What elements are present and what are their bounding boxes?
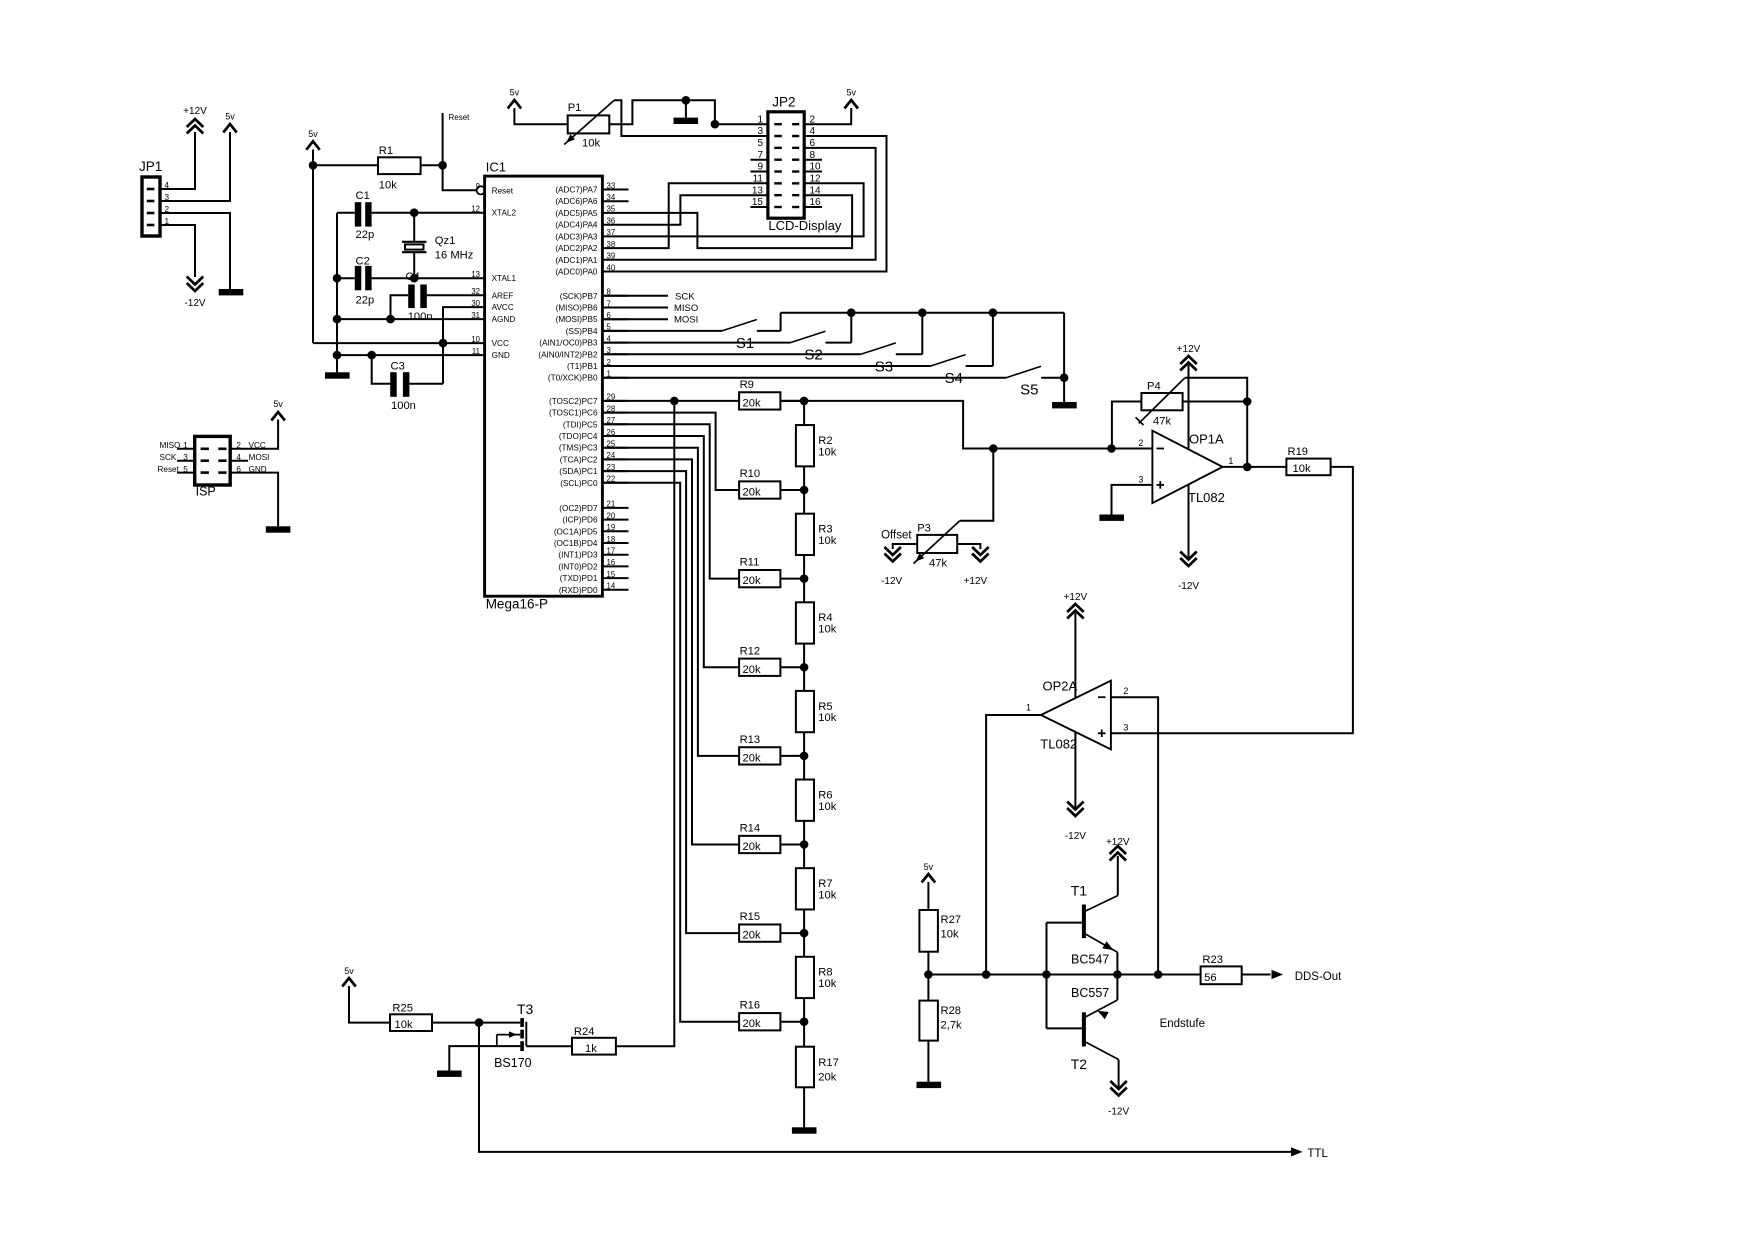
wire P4 right to output xyxy=(1183,401,1248,403)
op-amp U2B OP2A TL082 xyxy=(1026,679,1128,752)
power +12V OP1A xyxy=(1177,344,1201,371)
wire T1 emitter to node xyxy=(1116,952,1118,974)
junction ladder row R10 xyxy=(800,486,809,495)
wire PC1 to R15 xyxy=(602,471,739,933)
resistor R25 10k xyxy=(390,1003,432,1032)
wire rail down to ground xyxy=(1063,313,1065,402)
JP2 pin15 stub xyxy=(751,206,768,208)
svg-text:20k: 20k xyxy=(743,664,761,676)
power -12V T2 xyxy=(1108,1081,1129,1118)
crystal Qz1 xyxy=(402,213,474,279)
junction ladder row R9 xyxy=(800,397,809,406)
junction GND/C3 xyxy=(367,351,376,360)
ground switches xyxy=(1052,402,1077,408)
junction GND/gnd bus xyxy=(333,351,342,360)
svg-text:R5: R5 xyxy=(818,701,832,713)
svg-text:Reset: Reset xyxy=(449,113,471,122)
svg-text:35: 35 xyxy=(607,205,616,214)
svg-text:(TXD)PD1: (TXD)PD1 xyxy=(560,574,598,583)
junction ladder row R12 xyxy=(800,663,809,672)
resistor R13 20k xyxy=(739,734,780,765)
svg-text:14: 14 xyxy=(607,582,616,591)
svg-text:T3: T3 xyxy=(517,1001,534,1017)
wire T2 collector to -12V xyxy=(1118,1060,1120,1088)
svg-text:15: 15 xyxy=(607,570,616,579)
svg-text:(AIN0/INT2)PB2: (AIN0/INT2)PB2 xyxy=(538,350,598,359)
pin 4 MOSI stub xyxy=(230,453,269,462)
svg-text:-12V: -12V xyxy=(184,298,205,309)
wire R9 to ladder xyxy=(780,400,804,402)
svg-text:100n: 100n xyxy=(391,400,416,412)
svg-text:C4: C4 xyxy=(406,271,420,283)
svg-text:(OC2)PD7: (OC2)PD7 xyxy=(559,504,598,513)
svg-text:(AIN1/OC0)PB3: (AIN1/OC0)PB3 xyxy=(539,339,598,348)
wire ladder out to op-amp xyxy=(780,401,1152,449)
svg-text:R14: R14 xyxy=(740,823,761,835)
svg-text:JP1: JP1 xyxy=(139,159,162,174)
svg-text:(OC1B)PD4: (OC1B)PD4 xyxy=(554,539,598,548)
junction T3 drain node xyxy=(475,1018,484,1027)
wire JP2 pin11 to PA2 xyxy=(629,183,768,248)
junction feedback xyxy=(1154,970,1163,979)
wire PB4 to S1 xyxy=(602,330,722,332)
svg-text:20k: 20k xyxy=(743,841,761,853)
svg-text:Endstufe: Endstufe xyxy=(1160,1018,1205,1030)
wire R17 to ground xyxy=(803,1087,805,1127)
junction XTAL2/crystal xyxy=(410,208,419,217)
svg-text:(TCA)PC2: (TCA)PC2 xyxy=(560,455,598,464)
wire ladder segment below R3 xyxy=(803,555,805,579)
junction rail S2 xyxy=(847,308,856,317)
svg-text:(T0/XCK)PB0: (T0/XCK)PB0 xyxy=(548,374,598,383)
wire PC4 to R12 xyxy=(602,436,739,667)
svg-text:20k: 20k xyxy=(743,487,761,499)
svg-text:10k: 10k xyxy=(818,535,836,547)
wire JP1 pin4 to +12V xyxy=(160,132,195,189)
JP2 pin16 stub xyxy=(804,206,822,208)
svg-text:34: 34 xyxy=(607,193,616,202)
svg-text:(ICP)PD6: (ICP)PD6 xyxy=(562,516,597,525)
ground IC1 xyxy=(325,372,350,378)
power +12V P3 xyxy=(964,547,989,587)
svg-text:T1: T1 xyxy=(1071,883,1088,899)
svg-text:47k: 47k xyxy=(929,558,947,570)
pin 5 Reset stub xyxy=(158,465,195,474)
svg-text:XTAL1: XTAL1 xyxy=(492,274,517,283)
junction P3 tap xyxy=(989,444,998,453)
wire R28 to ground xyxy=(927,1041,929,1082)
svg-text:3: 3 xyxy=(757,126,763,137)
svg-text:R17: R17 xyxy=(818,1057,839,1069)
junction C4/AGND xyxy=(386,315,395,324)
svg-text:5v: 5v xyxy=(225,112,235,122)
capacitor C1 xyxy=(337,190,374,241)
wire ladder segment below R8 xyxy=(803,998,805,1022)
svg-text:+12V: +12V xyxy=(964,576,988,587)
wire R14 to ladder xyxy=(780,844,804,846)
wire ladder segment above R2 xyxy=(803,401,805,425)
svg-text:(ADC2)PA2: (ADC2)PA2 xyxy=(555,244,598,253)
wire ladder segment below R5 xyxy=(803,732,805,756)
capacitor C2 xyxy=(337,256,374,307)
label Endstufe xyxy=(1160,1018,1205,1030)
svg-text:TTL: TTL xyxy=(1307,1148,1328,1160)
svg-text:R10: R10 xyxy=(740,468,761,480)
junction OP1A output xyxy=(1243,463,1252,472)
svg-text:(SDA)PC1: (SDA)PC1 xyxy=(559,467,598,476)
wire PC6 to R10 xyxy=(602,413,739,490)
svg-text:10k: 10k xyxy=(818,801,836,813)
svg-text:R16: R16 xyxy=(740,1000,761,1012)
wire reset to pin 9 xyxy=(443,165,477,190)
svg-text:R7: R7 xyxy=(818,878,832,890)
wire R11 to ladder xyxy=(780,578,804,580)
wire P3 left to -12V xyxy=(893,544,918,549)
resistor R9 20k xyxy=(739,379,780,410)
svg-text:VCC: VCC xyxy=(492,339,509,348)
svg-text:20k: 20k xyxy=(743,752,761,764)
svg-text:37: 37 xyxy=(607,228,616,237)
junction ladder row R14 xyxy=(800,840,809,849)
IC1 left pin labels xyxy=(471,182,516,360)
junction OP2A out xyxy=(982,970,991,979)
svg-text:3: 3 xyxy=(183,453,188,462)
svg-text:33: 33 xyxy=(607,181,616,190)
IC1 right pin stubs and labels xyxy=(538,181,628,595)
svg-text:3: 3 xyxy=(1123,723,1128,733)
svg-text:-12V: -12V xyxy=(1065,831,1086,842)
wire R15 to ladder xyxy=(780,932,804,934)
power +12V OP2A xyxy=(1064,592,1088,619)
svg-text:R23: R23 xyxy=(1202,954,1223,966)
JP2 pin8 stub xyxy=(804,159,822,161)
svg-text:16: 16 xyxy=(607,558,616,567)
ground R28 xyxy=(917,1082,942,1088)
wire ladder segment above R3 xyxy=(803,490,805,514)
svg-text:R9: R9 xyxy=(740,379,754,391)
junction ladder row R13 xyxy=(800,752,809,761)
node TTL xyxy=(1291,1147,1328,1160)
wire 5V to R1 and VCC xyxy=(312,150,314,344)
transistor T3 BS170 xyxy=(494,1001,533,1070)
wire OP1A to -12V xyxy=(1188,485,1190,558)
junction XTAL1/crystal xyxy=(410,274,419,283)
svg-text:SCK: SCK xyxy=(675,291,695,302)
svg-text:10k: 10k xyxy=(818,712,836,724)
resistor R28 2,7k xyxy=(919,975,962,1041)
wire JP2 pin2 to 5V xyxy=(804,108,851,124)
svg-text:DDS-Out: DDS-Out xyxy=(1295,971,1342,983)
wire ladder segment above R6 xyxy=(803,756,805,780)
wire JP2 pin6 to PA1 xyxy=(629,148,876,260)
svg-text:16 MHz: 16 MHz xyxy=(435,250,474,262)
resistor R16 20k xyxy=(739,1000,780,1031)
svg-text:(OC1A)PD5: (OC1A)PD5 xyxy=(554,527,598,536)
svg-text:Qz1: Qz1 xyxy=(435,235,456,247)
resistor R1 xyxy=(378,145,421,192)
svg-text:5v: 5v xyxy=(924,862,934,872)
junction gnd rail xyxy=(682,96,691,105)
svg-text:(SCK)PB7: (SCK)PB7 xyxy=(560,292,598,301)
wire JP2 pin4 to PA0 xyxy=(629,136,887,272)
power 5V R25 xyxy=(342,966,356,987)
power 5V P1 xyxy=(508,88,522,109)
svg-text:MOSI: MOSI xyxy=(249,453,270,462)
wire PB0 to S5 xyxy=(602,377,1006,379)
svg-text:TL082: TL082 xyxy=(1188,490,1225,505)
svg-text:20k: 20k xyxy=(743,930,761,942)
wire 5V to P1 xyxy=(514,108,567,124)
wire C4 left to AGND xyxy=(391,295,409,319)
wire P1 right to gnd rail xyxy=(609,100,768,124)
svg-text:XTAL2: XTAL2 xyxy=(492,209,517,218)
wire C1 to XTAL2 xyxy=(372,212,485,214)
wire PC7 to R9 xyxy=(602,400,739,402)
wire R27 to node xyxy=(927,952,929,975)
svg-text:1k: 1k xyxy=(585,1043,597,1055)
wire AVCC down to C3 xyxy=(443,307,485,384)
svg-text:(TMS)PC3: (TMS)PC3 xyxy=(559,444,598,453)
svg-text:R15: R15 xyxy=(740,911,761,923)
svg-text:AGND: AGND xyxy=(492,315,516,324)
svg-text:21: 21 xyxy=(607,500,616,509)
wire GND row xyxy=(337,354,485,356)
svg-text:GND: GND xyxy=(249,465,267,474)
junction ladder row R11 xyxy=(800,574,809,583)
capacitor C4 xyxy=(406,271,433,323)
resistor R6 10k xyxy=(796,780,837,821)
svg-text:5v: 5v xyxy=(308,129,318,139)
switch S4 xyxy=(931,313,993,387)
resistor R4 10k xyxy=(796,602,837,643)
svg-text:10k: 10k xyxy=(818,978,836,990)
svg-text:SCK: SCK xyxy=(160,453,177,462)
svg-text:LCD-Display: LCD-Display xyxy=(768,218,841,233)
svg-text:5v: 5v xyxy=(846,88,856,98)
power 5V R27 xyxy=(922,862,936,883)
wire P3 wiper tap xyxy=(960,449,994,521)
svg-text:Reset: Reset xyxy=(492,186,514,195)
svg-text:MISO: MISO xyxy=(160,441,181,450)
svg-text:P1: P1 xyxy=(568,102,582,114)
junction reset node xyxy=(438,161,447,170)
wire R13 to ladder xyxy=(780,755,804,757)
junction PC7/TTL branch xyxy=(670,397,679,406)
wire PB3 to S2 xyxy=(602,342,790,344)
wire ISP pin2 VCC to 5V xyxy=(230,420,278,451)
svg-text:R8: R8 xyxy=(818,967,832,979)
wire ladder segment below R4 xyxy=(803,644,805,668)
wire TTL out xyxy=(479,1023,1291,1152)
junction C2 left xyxy=(333,274,342,283)
svg-text:(TDO)PC4: (TDO)PC4 xyxy=(559,432,598,441)
wire T1 collector to +12V xyxy=(1117,856,1119,896)
wire +12V to OP1A xyxy=(1188,364,1190,449)
svg-text:(ADC5)PA5: (ADC5)PA5 xyxy=(555,209,598,218)
ground ISP xyxy=(266,526,291,532)
svg-text:4: 4 xyxy=(236,453,241,462)
svg-text:22p: 22p xyxy=(356,295,375,307)
svg-text:(TOSC2)PC7: (TOSC2)PC7 xyxy=(549,397,598,406)
wire PB2 to S3 xyxy=(602,353,860,355)
node Reset xyxy=(443,113,471,165)
svg-text:+12V: +12V xyxy=(1177,344,1201,355)
svg-text:GND: GND xyxy=(492,351,510,360)
svg-text:(ADC4)PA4: (ADC4)PA4 xyxy=(555,221,598,230)
svg-text:OP1A: OP1A xyxy=(1189,431,1224,446)
svg-text:OP2A: OP2A xyxy=(1043,679,1078,694)
svg-text:R1: R1 xyxy=(379,145,393,157)
resistor R5 10k xyxy=(796,691,837,732)
svg-text:(SCL)PC0: (SCL)PC0 xyxy=(560,479,598,488)
IC U1 Mega16-P outline xyxy=(485,160,603,612)
svg-text:R24: R24 xyxy=(574,1026,595,1038)
svg-text:2,7k: 2,7k xyxy=(941,1020,963,1032)
svg-text:5: 5 xyxy=(183,465,188,474)
svg-text:R28: R28 xyxy=(941,1005,962,1017)
svg-text:38: 38 xyxy=(607,240,616,249)
ground OP1A xyxy=(1099,515,1124,521)
svg-text:BC557: BC557 xyxy=(1071,986,1109,1000)
svg-text:P4: P4 xyxy=(1147,381,1161,393)
svg-text:TL082: TL082 xyxy=(1040,737,1077,752)
wire OP1A pin3 to ground xyxy=(1112,485,1153,515)
wire to R1 xyxy=(313,164,378,166)
svg-text:10k: 10k xyxy=(395,1019,413,1031)
net MOSI xyxy=(602,315,698,326)
svg-text:JP2: JP2 xyxy=(772,94,795,109)
svg-text:1: 1 xyxy=(1026,703,1031,713)
junction P4 tap xyxy=(1107,444,1116,453)
resistor R8 10k xyxy=(796,957,837,998)
resistor R3 10k xyxy=(796,514,837,555)
wire PB1 to S4 xyxy=(602,365,930,367)
svg-text:10k: 10k xyxy=(941,929,959,941)
wire JP1 pin1 to -12V xyxy=(160,225,195,277)
wire R16 to R17 xyxy=(803,1022,805,1047)
junction 5V/R1 xyxy=(309,161,318,170)
pin 3 SCK stub xyxy=(160,453,195,462)
JP2 pin numbers xyxy=(752,114,821,208)
switch S2 xyxy=(790,313,851,364)
svg-text:MISO: MISO xyxy=(674,303,698,314)
resistor R27 10k xyxy=(919,910,961,952)
resistor R23 56 xyxy=(1201,954,1242,984)
wire JP1 pin3 to 5V xyxy=(160,132,230,201)
resistor R14 20k xyxy=(739,823,780,854)
connector ISP xyxy=(195,436,231,498)
svg-text:R25: R25 xyxy=(392,1003,413,1015)
svg-text:R13: R13 xyxy=(740,734,761,746)
op-amp U2A OP1A TL082 xyxy=(1138,431,1233,505)
svg-text:(RXD)PD0: (RXD)PD0 xyxy=(559,586,598,595)
wire 5V to R27 xyxy=(927,882,929,910)
junction R27/R28 xyxy=(924,970,933,979)
junction base rail xyxy=(1042,970,1051,979)
switch S5 xyxy=(1006,366,1064,398)
svg-text:10k: 10k xyxy=(818,889,836,901)
resistor R12 20k xyxy=(739,645,780,676)
wire JP2 pin12 to PA3 xyxy=(629,183,864,236)
svg-text:20: 20 xyxy=(607,511,616,520)
wire T3 source to ground xyxy=(449,1046,520,1070)
svg-text:3: 3 xyxy=(1138,475,1143,485)
svg-text:(INT1)PD3: (INT1)PD3 xyxy=(558,551,598,560)
wire R19 to OP2A pin3 xyxy=(1111,467,1353,733)
svg-text:(TOSC1)PC6: (TOSC1)PC6 xyxy=(549,409,598,418)
svg-text:(INT0)PD2: (INT0)PD2 xyxy=(558,562,598,571)
svg-text:10k: 10k xyxy=(582,138,600,150)
svg-text:T2: T2 xyxy=(1071,1056,1088,1072)
wire PC2 to R14 xyxy=(602,459,739,844)
svg-text:39: 39 xyxy=(607,252,616,261)
wire R12 to ladder xyxy=(780,666,804,668)
wire JP2 pin13 to PA4 xyxy=(629,195,768,225)
svg-text:AVCC: AVCC xyxy=(492,303,514,312)
svg-text:R19: R19 xyxy=(1288,446,1309,458)
junction ladder row R16 xyxy=(800,1017,809,1026)
wire OP2A to -12V xyxy=(1074,732,1076,808)
svg-text:VCC: VCC xyxy=(249,441,266,450)
svg-text:1: 1 xyxy=(757,114,763,125)
power -12V OP1A xyxy=(1178,552,1199,593)
potentiometer P4 xyxy=(1136,378,1185,428)
svg-text:+12V: +12V xyxy=(1106,837,1130,848)
wire T3 gate to R24 xyxy=(526,1045,572,1047)
svg-text:C1: C1 xyxy=(356,190,370,202)
junction ladder row R15 xyxy=(800,929,809,938)
wire ladder segment below R6 xyxy=(803,821,805,845)
svg-text:R11: R11 xyxy=(740,557,760,569)
wire OP1A output xyxy=(1223,466,1287,468)
svg-text:20k: 20k xyxy=(818,1072,836,1084)
net SCK xyxy=(602,291,695,302)
JP2 pin7 stub xyxy=(751,159,768,161)
wire PC0 to R16 xyxy=(602,483,739,1022)
svg-text:20k: 20k xyxy=(743,1018,761,1030)
wire PC3 to R13 xyxy=(602,448,739,756)
wire ladder segment below R7 xyxy=(803,909,805,933)
ground xyxy=(219,289,244,295)
svg-text:AREF: AREF xyxy=(492,291,514,300)
power +12V xyxy=(183,106,207,134)
wire +12V to OP2A xyxy=(1074,612,1076,698)
svg-text:1: 1 xyxy=(1228,456,1233,466)
wire ladder segment above R5 xyxy=(803,667,805,691)
svg-text:IC1: IC1 xyxy=(486,160,506,175)
svg-text:(ADC1)PA1: (ADC1)PA1 xyxy=(555,256,598,265)
svg-text:2: 2 xyxy=(236,441,241,450)
svg-text:36: 36 xyxy=(607,217,616,226)
connector JP2 LCD xyxy=(768,94,842,233)
resistor R19 10k xyxy=(1286,446,1330,475)
JP2 pin9 stub xyxy=(751,171,768,173)
resistor R7 10k xyxy=(796,868,837,909)
svg-text:(ADC3)PA3: (ADC3)PA3 xyxy=(555,232,598,241)
svg-text:(ADC0)PA0: (ADC0)PA0 xyxy=(555,268,598,277)
JP2 pin10 stub xyxy=(804,171,822,173)
svg-text:2: 2 xyxy=(1138,438,1143,448)
wire R25 to T3 drain xyxy=(432,1022,520,1024)
svg-text:(SS)PB4: (SS)PB4 xyxy=(566,327,598,336)
pin 1 MISO stub xyxy=(160,441,195,450)
junction rail S3 xyxy=(918,308,927,317)
power +12V T1 xyxy=(1106,837,1130,861)
svg-text:10k: 10k xyxy=(1293,463,1311,475)
junction JP2 pin1 xyxy=(711,120,720,129)
svg-text:(MISO)PB6: (MISO)PB6 xyxy=(556,304,598,313)
svg-text:+12V: +12V xyxy=(183,106,207,117)
